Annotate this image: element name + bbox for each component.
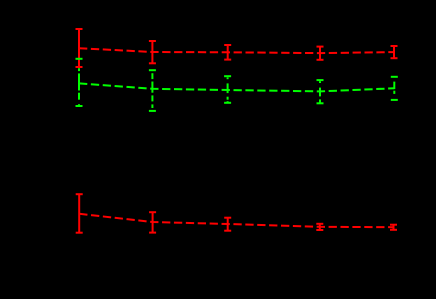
series 2 error bar 3 [224, 76, 231, 103]
series 2 error bar 2 [149, 70, 156, 111]
series 3: red bottom dashed data line [79, 214, 393, 227]
series 2 error bar 1 (dashed vertical) [76, 59, 83, 106]
series 3 error bar 5 [390, 225, 397, 230]
series 1 error bar 1 [76, 29, 83, 67]
series 2: green middle dashed data line [79, 83, 394, 91]
series 1 error bar 3 [224, 45, 231, 60]
series 2 error bar 4 [317, 80, 324, 103]
series 2 error bar 5 [391, 77, 398, 100]
series 1 error bar 4 [317, 47, 324, 60]
series 3 error bar 3 [224, 218, 231, 231]
series 1 error bar 5 [391, 46, 398, 58]
series 3 error bar 4 [316, 224, 323, 230]
series 1 error bar 2 [149, 41, 156, 63]
series 3 error bar 2 [149, 212, 156, 232]
series 1: red top dashed data line [79, 48, 394, 53]
series 3 error bar 1 [76, 194, 83, 233]
